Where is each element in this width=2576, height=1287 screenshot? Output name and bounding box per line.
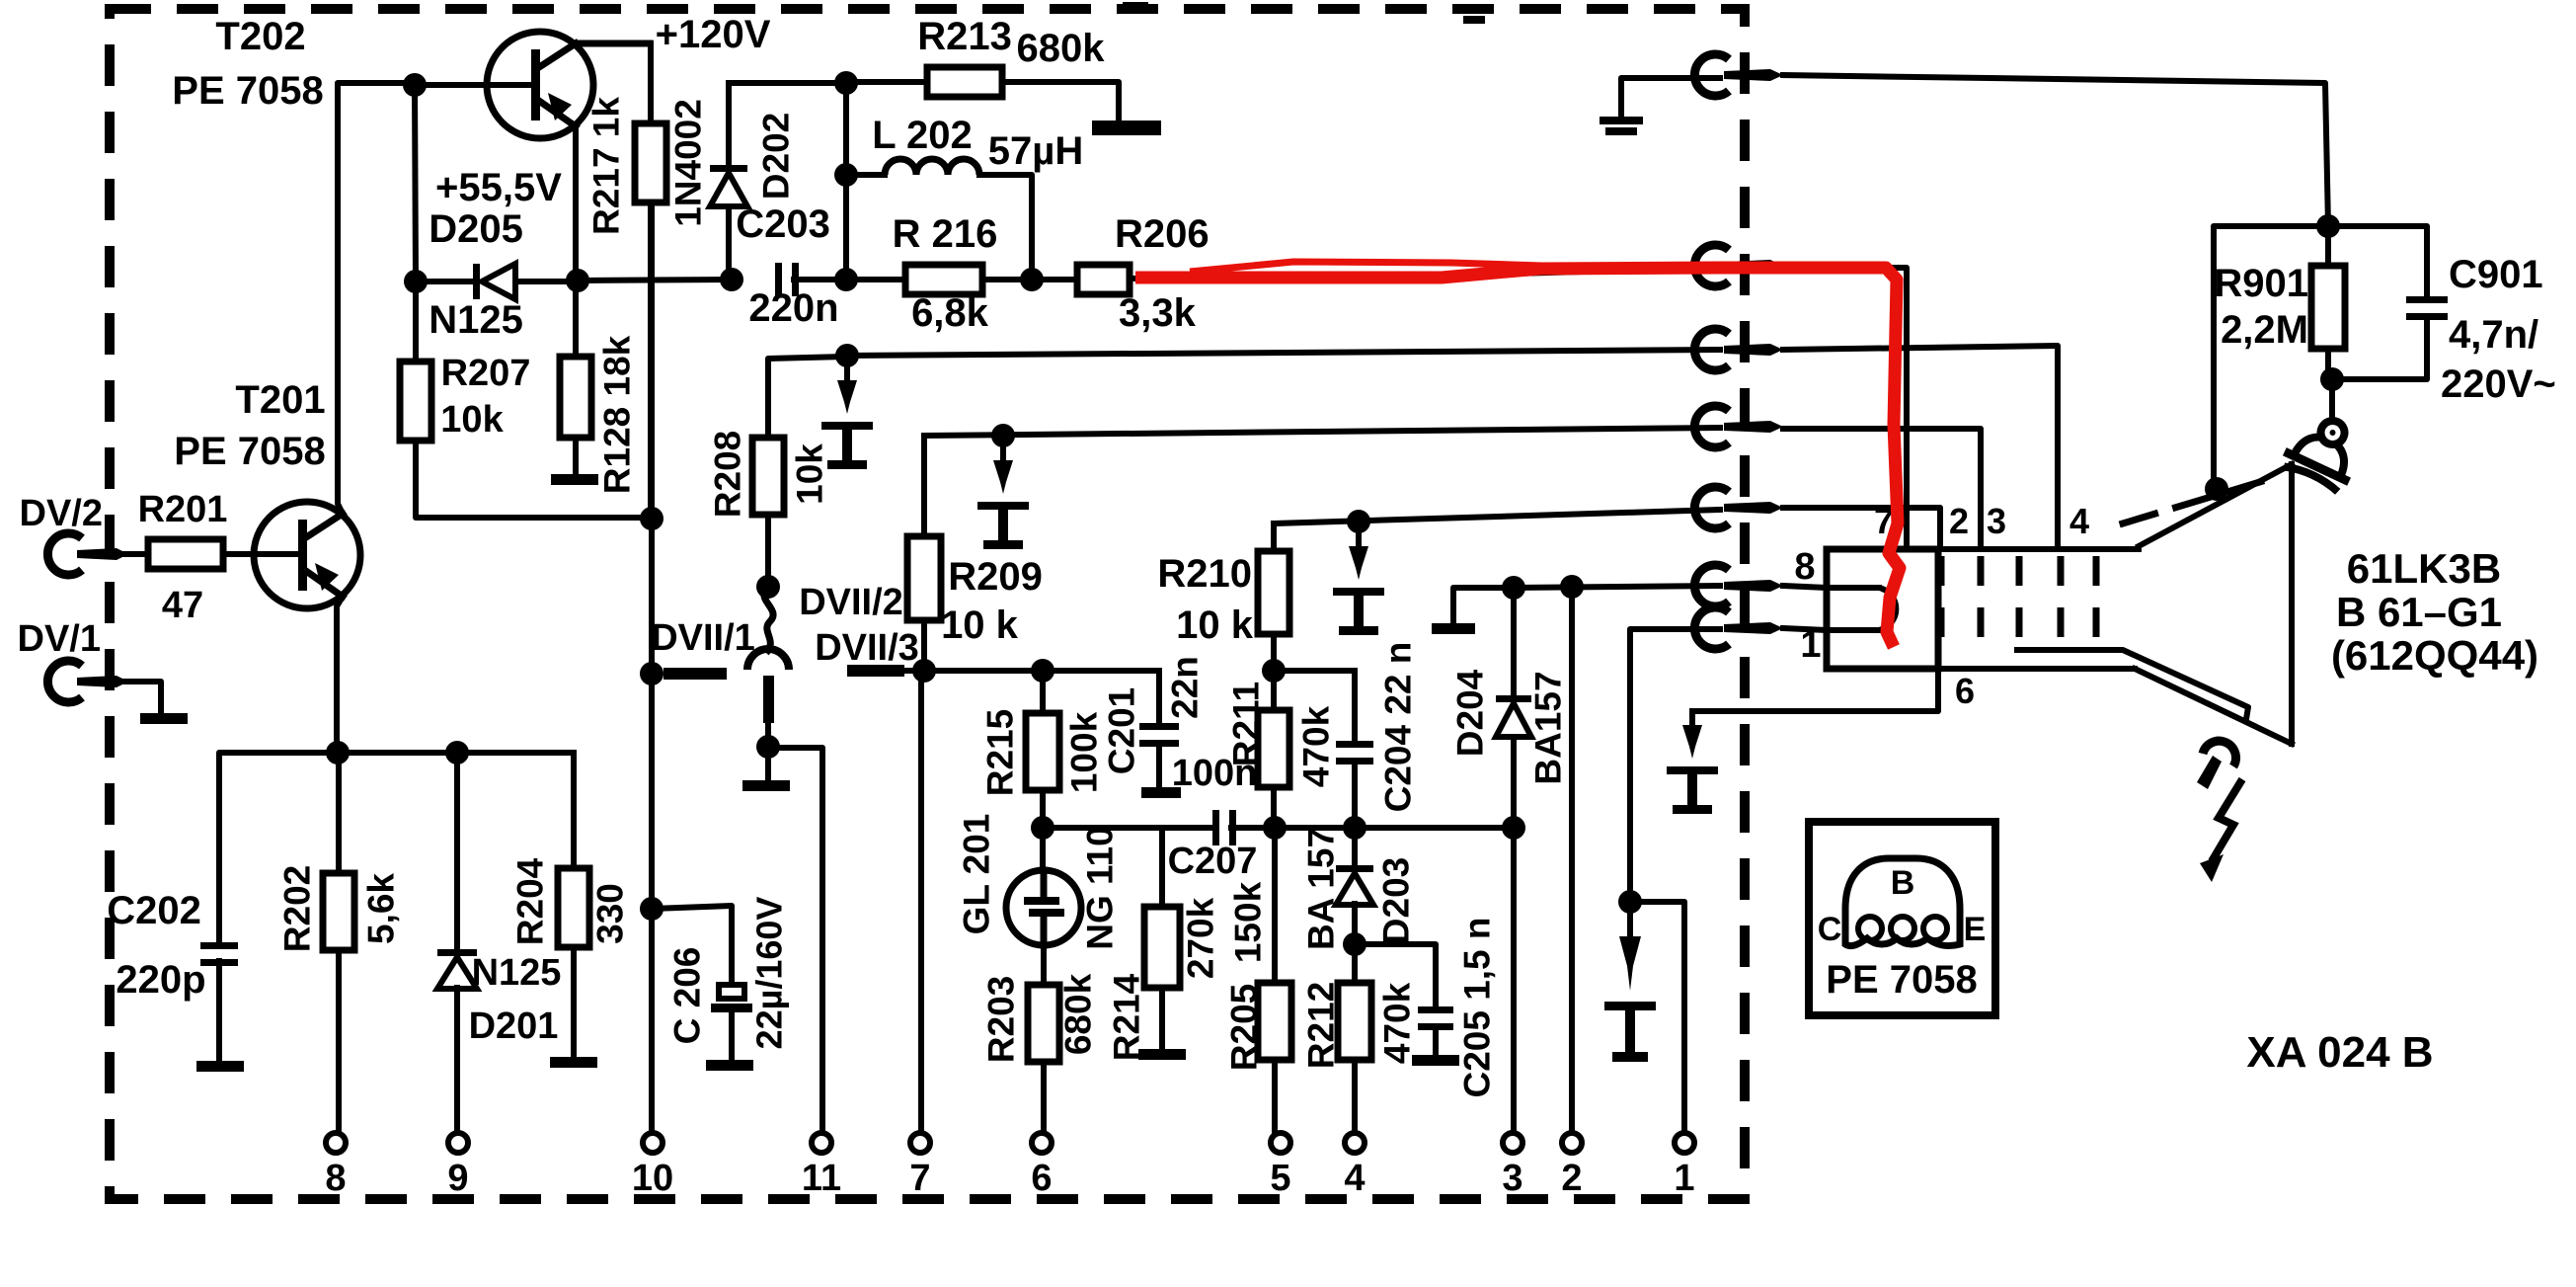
svg-text:C207: C207	[1168, 841, 1258, 882]
resistor R208 10k	[708, 357, 848, 588]
svg-text:5: 5	[1270, 1158, 1290, 1199]
svg-text:270k: 270k	[1181, 897, 1221, 979]
svg-text:T202: T202	[215, 15, 305, 58]
ground arrow conn5	[1333, 532, 1384, 635]
electron gun hook	[2197, 741, 2235, 789]
capacitor C206 22u/160V	[667, 897, 790, 1060]
svg-text:C201: C201	[1102, 687, 1142, 774]
node junction R207 top	[404, 270, 428, 293]
svg-text:R210: R210	[1157, 552, 1252, 596]
svg-text:+120V: +120V	[656, 13, 771, 56]
svg-text:R202: R202	[277, 865, 318, 952]
wire R208 node to connector 3	[847, 350, 1720, 356]
wire R215 to GL201	[1040, 790, 1046, 872]
svg-text:C901: C901	[2449, 253, 2543, 296]
svg-text:330: 330	[590, 883, 631, 944]
svg-text:47: 47	[162, 585, 203, 626]
svg-text:1: 1	[1800, 624, 1821, 666]
resistor R211 470k	[1226, 671, 1337, 828]
svg-text:10: 10	[632, 1158, 673, 1199]
wire R210 to connector 5	[1274, 510, 1720, 523]
node junction conn5 ground tap	[1347, 510, 1370, 533]
label pin 3	[1987, 501, 2006, 541]
label pin 4	[2069, 501, 2089, 541]
svg-text:22µ/160V: 22µ/160V	[749, 897, 790, 1050]
svg-text:10k: 10k	[440, 399, 504, 441]
svg-text:R203: R203	[981, 976, 1022, 1063]
svg-text:NG 110: NG 110	[1080, 826, 1121, 949]
ground R128	[551, 474, 598, 485]
node junction DVII/1	[640, 662, 664, 685]
ground arrow mid	[977, 446, 1029, 549]
ground D204 stub	[1432, 623, 1475, 634]
ground R213	[1092, 121, 1161, 135]
label pin 1	[1800, 624, 1821, 666]
node junction C204 bottom	[1343, 816, 1366, 840]
capacitor C202 220p	[107, 889, 238, 1061]
wire DVII bottom to ground	[765, 747, 771, 780]
terminal 9	[447, 1133, 468, 1199]
diode D203 BA157	[1301, 828, 1417, 950]
label XA 024 B	[2246, 1028, 2433, 1077]
svg-text:470k: 470k	[1377, 982, 1418, 1064]
svg-text:C202: C202	[107, 889, 201, 932]
svg-text:10 k: 10 k	[941, 603, 1019, 647]
ground C206	[706, 1060, 753, 1071]
inductor L202 57uH	[834, 83, 1083, 280]
wire gun upper line	[2017, 650, 2248, 719]
wire dashed enclosure border	[110, 2, 1745, 1199]
wire T201 collector riser	[338, 83, 415, 514]
svg-text:D204: D204	[1450, 669, 1491, 757]
svg-text:8: 8	[325, 1158, 346, 1199]
resistor R214 270k	[1107, 828, 1221, 1061]
diode D201 N125	[437, 753, 561, 1133]
resistor R202 5,6k	[277, 753, 402, 1133]
svg-text:1: 1	[1674, 1158, 1694, 1199]
ground R204	[550, 1057, 597, 1068]
svg-text:2,2M: 2,2M	[2221, 308, 2308, 352]
resistor R216 6,8k	[846, 212, 1032, 335]
svg-text:B 61–G1: B 61–G1	[2336, 589, 2502, 635]
wire red highlight	[1135, 262, 1900, 647]
svg-text:DVII/2: DVII/2	[799, 582, 903, 623]
svg-text:PE 7058: PE 7058	[1826, 958, 1977, 1002]
node junction C207 tap	[1031, 816, 1054, 840]
heater wire pin8	[1783, 586, 1879, 588]
node junction D201 top	[445, 741, 469, 764]
node junction R208 wire	[835, 344, 859, 367]
connector bushing y432	[1694, 406, 1783, 447]
wire T202 collector to +120V corner	[576, 40, 650, 47]
capacitor C205 1,5n	[1418, 917, 1498, 1097]
terminal 8	[325, 1133, 346, 1199]
svg-text:C 206: C 206	[667, 947, 708, 1045]
spark gap DVII/2	[747, 582, 919, 747]
svg-text:9: 9	[447, 1158, 468, 1199]
wire pin4 lead	[1783, 346, 2058, 549]
wire pin3 lead	[1783, 429, 1981, 549]
spark gap DVII/1 electrode	[651, 617, 755, 680]
svg-text:R212: R212	[1301, 982, 1342, 1069]
svg-text:D205: D205	[429, 207, 523, 251]
wire R206 to connector thin	[1130, 268, 1907, 549]
diode D202 1N4002	[668, 83, 797, 280]
wire R901 top left stub	[2214, 226, 2328, 486]
svg-text:BA157: BA157	[1528, 671, 1569, 784]
node junction R901 top	[2316, 214, 2340, 238]
svg-text:5,6k: 5,6k	[361, 873, 402, 944]
label pin 6	[1955, 671, 1975, 711]
resistor R210 10k	[1157, 523, 1289, 671]
resistor R205 150k	[1224, 828, 1292, 1133]
node junction R216 right	[1020, 268, 1044, 291]
terminal 10	[632, 1133, 673, 1199]
wire T202 base	[415, 82, 531, 88]
wire T201 emitter	[337, 597, 343, 753]
wire DV/1 to ground	[107, 682, 161, 713]
svg-text:8: 8	[1794, 546, 1815, 588]
svg-text:2: 2	[1949, 501, 1969, 541]
ground C201	[1141, 787, 1181, 798]
wire C207 bus left	[1043, 825, 1212, 831]
svg-text:R205: R205	[1224, 984, 1265, 1071]
svg-text:4: 4	[1344, 1158, 1365, 1199]
node junction R901 bottom	[2320, 367, 2344, 391]
resistor R128 18k	[560, 281, 638, 494]
ground DV/1	[140, 713, 188, 724]
terminal 4	[1344, 1133, 1365, 1199]
svg-text:57µH: 57µH	[988, 129, 1083, 173]
wire emitter bus right	[338, 750, 574, 756]
ground DVII	[742, 780, 790, 791]
svg-text:R209: R209	[948, 555, 1043, 599]
svg-text:DVII/3: DVII/3	[815, 627, 919, 669]
resistor R209 10k	[907, 436, 1043, 671]
capacitor C207 100n	[1168, 753, 1275, 882]
label pin 2	[1949, 501, 1969, 541]
neon lamp GL201 NG110	[957, 814, 1121, 950]
wire T202 emitter to bus	[573, 126, 579, 281]
svg-text:C205 1,5 n: C205 1,5 n	[1457, 917, 1498, 1097]
connector DV/2	[20, 493, 128, 575]
svg-text:B: B	[1891, 864, 1915, 902]
node junction terminal1	[1618, 890, 1642, 914]
connector DV/1	[18, 618, 128, 702]
wire D202 top to node	[729, 80, 846, 86]
svg-text:3,3k: 3,3k	[1119, 291, 1197, 335]
ground arrow pin6	[1667, 711, 1718, 814]
resistor R215 100k	[980, 671, 1105, 796]
svg-text:D202: D202	[756, 113, 797, 200]
node junction DVII/2 bottom	[756, 735, 780, 759]
resistor R203 680k	[981, 945, 1099, 1133]
tube socket box	[1827, 549, 1938, 669]
node junction R215 top	[1031, 659, 1054, 683]
wire bus D205 to D202	[578, 280, 732, 281]
diode D205 N125	[422, 207, 576, 342]
wire conn to terminal 2	[1569, 587, 1575, 1133]
spark gap DVII/3 electrode	[847, 665, 923, 677]
node junction DVII/2 top	[756, 575, 780, 599]
svg-text:R217 1k: R217 1k	[586, 97, 627, 235]
wire to terminal 1	[1630, 902, 1684, 1133]
wire neck bottom	[1938, 666, 2135, 672]
svg-text:7: 7	[909, 1158, 930, 1199]
resistor R212 470k	[1301, 944, 1418, 1133]
resistor R201 47	[107, 489, 298, 626]
svg-text:150k: 150k	[1228, 881, 1269, 963]
capacitor C203 220n	[736, 202, 846, 330]
svg-text:6: 6	[1955, 671, 1975, 711]
capacitor C201 22n	[1102, 656, 1206, 787]
connector bushing y593	[1694, 565, 1783, 606]
svg-text:C: C	[1818, 911, 1842, 948]
svg-text:R214: R214	[1107, 973, 1147, 1061]
node junction R209 bottom	[912, 659, 936, 683]
terminal 6	[1031, 1133, 1052, 1199]
wire tube top slant	[2139, 464, 2292, 546]
connector bushing y636	[1694, 607, 1783, 649]
svg-text:N125: N125	[472, 952, 562, 994]
wire DVII/3 bus	[924, 668, 1159, 674]
svg-text:R208: R208	[708, 431, 748, 518]
wire node to C202	[219, 753, 338, 944]
wire pin6 to ground	[1692, 669, 1938, 711]
svg-text:470k: 470k	[1296, 705, 1337, 787]
svg-text:DV/2: DV/2	[20, 493, 103, 534]
ground arrow R208 node	[821, 366, 873, 469]
svg-text:R207: R207	[441, 353, 531, 394]
svg-text:T201: T201	[235, 378, 325, 422]
wire tube bottom slant	[2135, 669, 2292, 744]
svg-text:3: 3	[1987, 501, 2006, 541]
wire tube aquadag dashed	[2123, 481, 2263, 523]
svg-text:(612QQ44): (612QQ44)	[2331, 632, 2538, 679]
svg-text:R201: R201	[138, 489, 228, 530]
svg-text:R211: R211	[1226, 682, 1267, 766]
svg-text:DVII/1: DVII/1	[651, 617, 755, 659]
svg-text:100k: 100k	[1064, 711, 1105, 793]
lightning arrow	[2200, 779, 2242, 882]
resistor R213 680k	[846, 15, 1119, 122]
svg-text:R213: R213	[917, 15, 1012, 58]
svg-text:GL 201: GL 201	[957, 814, 997, 935]
svg-text:4: 4	[2069, 501, 2089, 541]
wire C205 tap	[1355, 944, 1436, 1004]
wire tube right edge	[2289, 464, 2295, 744]
transistor T202	[172, 15, 593, 138]
svg-text:C203: C203	[736, 202, 830, 246]
transistor T201	[174, 378, 360, 608]
terminal 3	[1502, 1133, 1522, 1199]
svg-text:10 k: 10 k	[1176, 603, 1254, 647]
svg-text:220p: 220p	[116, 958, 205, 1002]
ground C202	[196, 1061, 244, 1072]
svg-text:11: 11	[802, 1158, 841, 1199]
node junction D203 bottom	[1343, 932, 1366, 956]
label +55,5V	[435, 166, 562, 209]
label pin 8	[1794, 546, 1815, 588]
ground connector1	[1600, 117, 1643, 135]
svg-text:E: E	[1964, 911, 1987, 948]
wire R901 bottom to anode	[2329, 379, 2335, 419]
svg-text:680k: 680k	[1017, 27, 1106, 70]
node junction C206 tap	[640, 897, 664, 921]
svg-text:PE 7058: PE 7058	[174, 430, 325, 473]
svg-text:1N4002: 1N4002	[668, 99, 709, 227]
wire neck top	[1938, 546, 2139, 552]
connector bushing y269	[1694, 245, 1783, 286]
svg-text:3: 3	[1502, 1158, 1522, 1199]
wire connector9 to terminal 1	[1630, 629, 1720, 902]
svg-text:R128 18k: R128 18k	[597, 335, 638, 494]
label pin 7	[1874, 501, 1894, 541]
wire conn8 bus	[1514, 586, 1720, 588]
wire 838 bus	[1275, 825, 1514, 831]
resistor R901 2,2M	[2214, 226, 2345, 379]
node junction top rail D202	[834, 71, 858, 95]
wire D204 gnd stub	[1453, 588, 1514, 623]
wire DVII to terminal 11	[768, 748, 822, 1133]
svg-text:N125: N125	[429, 298, 523, 342]
wire R209 top to connector 4	[924, 428, 1720, 436]
node junction D205 cathode	[566, 269, 589, 292]
node junction anode on aquadag	[2205, 477, 2228, 501]
ground arrow terminal1 node	[1604, 902, 1656, 1062]
terminal 7	[909, 1133, 930, 1199]
svg-text:2: 2	[1561, 1158, 1582, 1199]
terminal 2	[1561, 1133, 1582, 1199]
svg-text:DV/1: DV/1	[18, 618, 101, 660]
svg-text:R204: R204	[510, 857, 551, 945]
node junction R211 bottom	[1263, 816, 1287, 840]
node junction R217 bottom wire	[640, 507, 664, 530]
transistor pinout PE 7058	[1809, 822, 1995, 1015]
svg-text:D201: D201	[469, 1005, 559, 1047]
svg-text:220n: 220n	[748, 286, 838, 330]
label +120V	[656, 13, 771, 56]
node junction emitter T201	[326, 741, 350, 764]
svg-text:R215: R215	[980, 709, 1021, 796]
svg-text:680k: 680k	[1058, 973, 1099, 1055]
svg-text:D203: D203	[1376, 857, 1417, 944]
resistor R204 330	[510, 753, 631, 1057]
heater wire pin1	[1783, 628, 1879, 630]
svg-text:4,7n/: 4,7n/	[2449, 313, 2538, 357]
wire pin2 lead	[1783, 508, 1940, 549]
svg-text:+55,5V: +55,5V	[435, 166, 562, 209]
diode D204 BA157	[1450, 588, 1569, 828]
terminal 11	[802, 1133, 841, 1199]
svg-text:PE 7058: PE 7058	[172, 69, 323, 113]
wire R209 column to terminal 7	[918, 671, 924, 1133]
svg-text:6,8k: 6,8k	[911, 291, 989, 335]
svg-text:L 202: L 202	[872, 114, 973, 157]
svg-text:61LK3B: 61LK3B	[2347, 545, 2501, 592]
svg-text:R206: R206	[1115, 212, 1210, 256]
wire C206 tap	[652, 906, 732, 984]
svg-text:C204 22 n: C204 22 n	[1378, 642, 1419, 813]
svg-text:220V~: 220V~	[2441, 362, 2556, 406]
connector bushing y354	[1694, 329, 1783, 370]
heater U-bend	[1879, 588, 1896, 630]
label tube type	[2331, 545, 2538, 679]
wire connector1 ground	[1621, 78, 1720, 117]
svg-text:22n: 22n	[1165, 656, 1206, 719]
node junction C203 right	[834, 268, 858, 291]
svg-text:6: 6	[1031, 1158, 1052, 1199]
node junction terminal2 column	[1560, 575, 1584, 599]
terminal 5	[1270, 1133, 1290, 1199]
resistor R217 1k	[586, 43, 667, 517]
connector bushing y76	[1694, 54, 1783, 96]
connector bushing y514	[1694, 487, 1783, 528]
ground C205	[1412, 1055, 1459, 1066]
node junction base T202	[403, 73, 427, 97]
ground R214	[1138, 1049, 1186, 1060]
wire grid dashes	[1941, 556, 2096, 652]
wire R210R211 node to C204	[1274, 668, 1355, 674]
node junction R211 top	[1262, 659, 1286, 683]
node junction ground tap	[991, 424, 1015, 447]
capacitor C204 22n	[1336, 642, 1419, 828]
node junction D204 top	[1502, 576, 1525, 600]
svg-text:XA 024 B: XA 024 B	[2246, 1028, 2433, 1077]
svg-text:10k: 10k	[790, 443, 830, 505]
capacitor C901 4,7n 220V	[2328, 226, 2556, 406]
svg-text:R 216: R 216	[893, 212, 998, 256]
node junction C203 left	[720, 268, 743, 291]
wire D204 to terminal 3	[1511, 828, 1517, 1133]
resistor R207 10k	[400, 282, 650, 518]
terminal 1	[1674, 1133, 1694, 1199]
svg-text:R901: R901	[2214, 262, 2308, 305]
wire column x660	[649, 202, 655, 1133]
svg-text:BA 157: BA 157	[1301, 828, 1342, 950]
resistor R206 3,3k	[1032, 212, 1210, 335]
wire base node to D205 bus	[415, 85, 416, 282]
wire top rail to R901	[1783, 75, 2328, 226]
node junction D204 bottom	[1502, 816, 1525, 840]
anode cap bell	[2279, 407, 2370, 494]
